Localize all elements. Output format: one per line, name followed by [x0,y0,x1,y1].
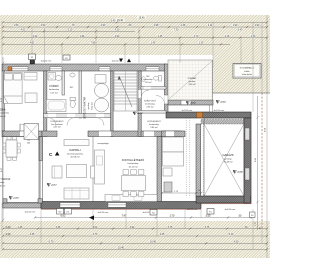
garage inner left wall [196,124,201,196]
dim line A [3,21,267,23]
bottom row C [3,235,267,237]
svg-text:15.40: 15.40 [118,247,125,250]
garage diagonals [204,124,244,196]
interior wall bath bottom [44,114,111,118]
svg-text:d=100 mm: d=100 mm [112,61,123,63]
svg-text:+3.15: +3.15 [13,198,19,200]
svg-text:5.10: 5.10 [229,233,234,236]
svg-text:4.35: 4.35 [30,233,35,236]
svg-text:2.16: 2.16 [225,35,230,38]
svg-text:28.40 m2: 28.40 m2 [0,185,6,187]
svg-text:3.90: 3.90 [41,24,46,27]
svg-text:3.70: 3.70 [194,35,199,38]
window W4 living room in bottom wall [60,203,80,208]
svg-text:3.92: 3.92 [130,226,135,229]
svg-text:KÖZLEKEDŐ: KÖZLEKEDŐ [147,120,161,123]
svg-text:6.92: 6.92 [61,215,66,218]
wall bedroom/terrace [2,131,42,137]
kitchen label [122,157,144,168]
svg-text:greslap: greslap [189,81,196,83]
marker boxes E2 D1 bottom [57,209,64,215]
stairs [114,71,137,111]
svg-text:1.29 m2: 1.29 m2 [145,82,152,84]
garage door leaf band [201,120,244,125]
svg-text:+0.15: +0.15 [190,103,196,105]
svg-text:SZÉLFOGÓ: SZÉLFOGÓ [144,100,156,103]
marker box F2 [29,54,36,60]
terrace-living glass wall [39,137,42,204]
terrain hatch top-right block [213,55,270,93]
window W3 [99,67,110,71]
svg-text:2.96 m2: 2.96 m2 [146,107,154,109]
marker box right margin [250,212,256,218]
level marker +0.15 porch [186,102,196,105]
bottom row B [3,228,267,230]
hall wall right of kitchen to garage [162,131,185,137]
wardrobe bedroom [24,73,37,81]
furniture: bed [4,73,23,104]
svg-text:3.35: 3.35 [56,226,61,229]
sofa bottom [64,188,89,199]
svg-text:6.70: 6.70 [49,241,54,244]
svg-text:TORNÁC: TORNÁC [187,77,197,80]
svg-text:2.98: 2.98 [154,24,159,27]
dim line D [3,37,267,39]
left dim chain [2,57,5,222]
svg-text:7.47: 7.47 [122,215,127,218]
wc sink [70,73,75,77]
kitchen right wall [157,137,162,202]
top dimension rows [2,16,268,78]
living room armchair left [52,166,62,178]
section marker top [119,59,123,63]
svg-text:2.90: 2.90 [101,24,106,27]
svg-text:1.50: 1.50 [14,24,19,27]
wc2 sink [142,77,146,82]
svg-text:3.55: 3.55 [206,215,211,218]
terrain hatch bottom band [0,221,270,258]
svg-text:+0.17: +0.17 [51,185,57,187]
svg-text:kültéri: kültéri [244,70,250,73]
svg-text:1.15: 1.15 [255,222,257,226]
section marker bottom [89,216,94,221]
svg-text:mosogatógép: mosogatógép [97,142,108,145]
marker box K2 [63,55,70,60]
svg-text:1.35: 1.35 [199,42,204,45]
red dashed property line right [261,93,263,230]
svg-text:1.70: 1.70 [251,35,256,38]
witness lines top [2,22,262,113]
svg-text:+0.02: +0.02 [237,172,243,174]
dining chairs bottom [123,192,129,197]
building [2,15,270,258]
bottom row A [35,217,252,219]
svg-text:térburkolat: térburkolat [242,73,252,76]
svg-text:1.45: 1.45 [18,226,23,229]
svg-text:laminált parketta: laminált parketta [0,112,10,115]
svg-text:20.58 m2: 20.58 m2 [70,157,80,159]
level marker +0.02 garage [233,171,243,174]
svg-text:3.02: 3.02 [93,226,98,229]
dim line C [3,30,135,32]
interior wall bath|wc [62,71,64,95]
bottom row D [3,242,267,244]
opening in hall wall [99,131,111,136]
bedroom desk [25,93,37,103]
svg-text:5.40: 5.40 [238,29,243,32]
dining table [122,176,146,191]
bath washer [48,73,56,81]
window W5 kitchen in bottom wall [108,203,126,208]
svg-text:8.42 m2: 8.42 m2 [92,101,94,109]
svg-text:4.32: 4.32 [33,35,38,38]
porch step opening [181,100,191,104]
door D3 wc [67,114,75,118]
porch tile floor [168,60,213,100]
mech appliance box [95,75,106,84]
opening kitchen top [144,131,154,136]
svg-text:d=100 mm: d=100 mm [41,61,52,63]
svg-text:1.45: 1.45 [158,35,163,38]
terrace label [0,178,11,187]
svg-text:laminált parketta: laminált parketta [67,152,84,155]
svg-text:d=100 mm: d=100 mm [187,209,198,211]
door D4 entry hall [138,90,141,98]
dining chairs top [123,170,129,175]
terrace posts [3,199,7,203]
level marker +3.15 terrace [9,197,19,200]
bottom row E [3,248,267,250]
kitchen counter left [95,150,105,184]
interior wall wc|mech [79,71,81,118]
svg-text:5.10: 5.10 [68,29,73,32]
bath sink [55,76,61,81]
hall label [147,120,161,129]
svg-text:lam. parketta: lam. parketta [51,123,63,126]
svg-text:7.86: 7.86 [91,42,96,45]
room label bath [49,83,60,94]
top-right parking label box [233,64,261,79]
szélfogó partition [138,111,166,114]
right side window K3 [245,128,250,140]
svg-text:greslap: greslap [87,102,90,110]
left exterior wall / window band [2,71,5,131]
svg-text:K3: K3 [251,215,253,217]
red insulation line bottom [41,208,201,210]
svg-text:GÉPÉSZET-RAKTÁR: GÉPÉSZET-RAKTÁR [84,97,87,120]
bathtub [47,100,67,112]
svg-text:13.96 m2: 13.96 m2 [0,116,6,118]
svg-text:d=100 mm: d=100 mm [25,212,36,214]
svg-text:GARÁZS: GARÁZS [222,153,233,157]
svg-text:FEDETT TERASZ: FEDETT TERASZ [0,178,11,181]
section marker C [49,152,59,158]
svg-text:d=100 mm: d=100 mm [182,110,193,112]
orange pier P1 [8,67,12,71]
svg-text:kerámialap: kerámialap [143,78,152,81]
kitchen counter bottom [105,195,157,202]
bottom exterior wall dark [3,203,41,209]
svg-text:6.67: 6.67 [1,167,3,172]
svg-text:1.90: 1.90 [233,24,238,27]
svg-text:7.30: 7.30 [174,29,179,32]
interior dim line hall-garage [162,192,201,194]
svg-text:4.05 m2: 4.05 m2 [53,127,61,129]
red insulation line right [250,112,252,204]
svg-text:4.70: 4.70 [93,233,98,236]
svg-text:d=100 mm: d=100 mm [225,209,236,211]
svg-text:19.40: 19.40 [117,19,124,22]
svg-text:kerámialap: kerámialap [145,104,156,106]
garage inner outline [204,118,244,196]
living room coffee table [67,165,87,178]
bottom dimension rows [2,214,268,250]
exterior top wall [2,64,166,71]
pantry cabinet column [163,137,184,152]
porch bottom wall [168,100,213,105]
wall kitchen top [141,131,181,137]
svg-text:4.30: 4.30 [234,241,239,244]
svg-text:4.30: 4.30 [115,29,120,32]
svg-text:45: 45 [260,227,262,229]
svg-text:KOCSIBEÁLLÓ: KOCSIBEÁLLÓ [240,67,255,70]
svg-text:WC: WC [70,87,74,89]
nappali north wall stub [42,131,57,137]
right side window K4 [245,168,250,180]
room label bedroom [0,108,10,118]
porch label [187,77,197,86]
svg-text:5.40: 5.40 [111,20,116,23]
svg-text:4.02: 4.02 [21,29,26,32]
hall wall y131 mid [88,131,141,137]
marker box E1 [207,209,214,215]
nappali sideboard [64,140,89,146]
svg-text:10.40: 10.40 [150,241,157,244]
mech boiler circle 1 [95,84,109,98]
door D5 garage hall [166,131,174,136]
mech boiler circle 2 [95,98,109,112]
window W1 top bedroom [12,67,28,71]
svg-text:greslap: greslap [224,157,232,160]
svg-text:3.75: 3.75 [205,226,210,229]
witness lines bottom [2,203,262,249]
X-box closet [24,124,39,140]
svg-text:5.25 m2: 5.25 m2 [50,92,58,94]
east wall witness pair porch-garage [209,93,211,112]
marker box K2b bottom [150,210,157,216]
svg-text:15.40: 15.40 [139,16,146,19]
svg-text:4.62: 4.62 [30,42,35,45]
nappali|konyha divider [92,137,94,202]
terrace table [6,140,17,157]
svg-text:kerámialap: kerámialap [128,162,139,165]
terrace slab outline [3,137,40,204]
svg-text:31.48 m2: 31.48 m2 [223,162,233,164]
door D2 bath [48,114,56,118]
interior wall bedroom|bath [44,71,47,137]
window W2 bathroom [50,67,62,71]
svg-text:SZOBA: SZOBA [0,108,6,112]
door D3b mech [96,114,104,118]
garage right wall dark [244,118,251,203]
interior wall mech|stairs [111,71,114,137]
svg-text:d=100 mm: d=100 mm [98,212,109,214]
svg-text:1.45: 1.45 [151,42,156,45]
garage top wall dark [166,112,251,118]
wc toilet [70,98,76,101]
porch diagonal [169,61,212,99]
svg-text:kerámialap: kerámialap [49,88,60,91]
svg-text:3.43 m2: 3.43 m2 [188,84,196,86]
wc2 toilet [159,76,162,82]
svg-text:4.20: 4.20 [6,233,11,236]
svg-text:2.90: 2.90 [255,24,260,27]
svg-text:3.75: 3.75 [168,226,173,229]
svg-text:6.20: 6.20 [6,226,11,229]
svg-text:9.86 m2: 9.86 m2 [150,127,158,129]
overall dim 19.40 [116,18,125,21]
level marker +0.17 hall [133,112,143,115]
level marker +0.17 living [47,184,57,187]
room label mechanical (rotated) [84,97,94,120]
dark marker above wall [30,60,35,64]
east house wall [165,64,169,112]
hall small label [51,120,64,129]
svg-text:4.25: 4.25 [160,233,165,236]
window size note [25,138,33,145]
door D1 bedroom [20,131,28,136]
svg-text:1.96: 1.96 [80,35,85,38]
svg-text:+0.17: +0.17 [137,113,143,115]
garage left dashed lines [185,118,187,196]
right dim chain [256,15,267,258]
svg-text:kerámialap: kerámialap [149,124,160,126]
dim line E [3,43,230,45]
svg-text:6.73: 6.73 [1,97,3,102]
orange pier garage wall [197,112,203,117]
entry label [143,76,156,109]
interior wall stairs|entry [138,71,141,137]
garage label [222,153,233,164]
svg-text:2.11: 2.11 [208,24,213,27]
living room armchair right [91,166,101,178]
svg-text:d=100 mm: d=100 mm [214,110,225,112]
svg-text:1.70: 1.70 [170,215,175,218]
svg-text:WC: WC [146,76,150,78]
svg-text:NAPPALI: NAPPALI [69,148,80,152]
svg-text:2.38: 2.38 [181,24,186,27]
svg-text:KÖZLEKEDŐ: KÖZLEKEDŐ [51,120,64,123]
svg-text:+0.15: +0.15 [220,102,226,104]
wc2 bottom wall [141,87,166,90]
svg-text:3.90: 3.90 [115,35,120,38]
svg-text:15.12 m2: 15.12 m2 [128,166,138,168]
nappali west wall solid part [39,137,42,161]
dim line B [3,26,267,28]
terrain hatch top band [0,15,270,55]
level marker +0.15 drive [216,101,226,104]
window W6 [146,67,159,71]
porch right edge [212,60,214,93]
living room label [67,148,84,159]
